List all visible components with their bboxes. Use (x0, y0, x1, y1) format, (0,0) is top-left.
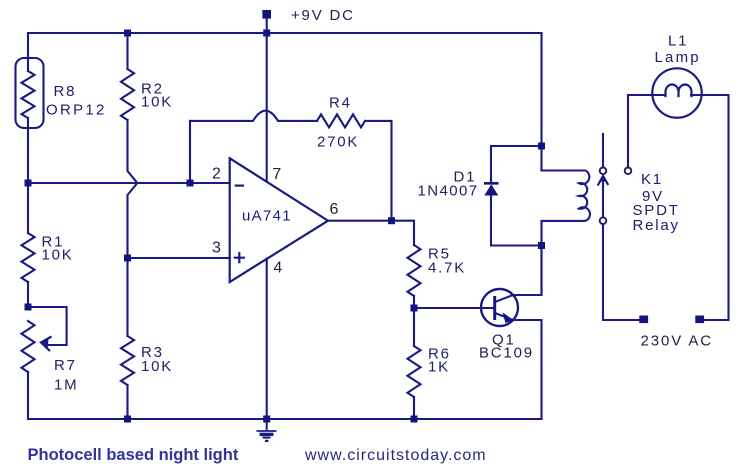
wire R8 bottom to node (27, 118, 29, 183)
wire pin3 net (128, 257, 230, 259)
junction pin3 net (124, 255, 131, 262)
transistor Q1 emitter diagonal (495, 313, 512, 320)
wire diode top branch (491, 146, 542, 182)
wire node A horizontal (pin2 net) (28, 182, 230, 184)
wire collector horizontal (512, 246, 542, 296)
wire R3 bottom (126, 385, 128, 419)
wire emitter horizontal (513, 320, 542, 419)
resistor R2 zigzag (121, 69, 134, 120)
svg-text:Photocell based night light: Photocell based night light (28, 446, 239, 464)
lamp filament (666, 85, 692, 96)
wire op-amp pin7 supply (266, 33, 268, 182)
svg-text:1K: 1K (428, 359, 450, 376)
wire +9V stub (266, 18, 268, 33)
terminal square 230V right (695, 316, 704, 324)
svg-text:+9V DC: +9V DC (291, 7, 355, 24)
junction feedback tap (187, 180, 194, 187)
svg-text:1N4007: 1N4007 (418, 183, 479, 200)
wire feedback horizontal with hop (190, 111, 317, 121)
svg-text:10K: 10K (42, 247, 74, 264)
svg-text:R4: R4 (329, 95, 352, 112)
svg-text:Relay: Relay (633, 217, 680, 234)
terminal square +9V (262, 10, 271, 19)
wire R1 bottom to node (27, 282, 29, 307)
junction node A left (25, 180, 32, 187)
wire R4 right (365, 121, 392, 221)
resistor R8 zigzag (22, 71, 35, 118)
lamp L1 circle (652, 68, 701, 117)
junction R2 top (124, 30, 131, 37)
resistor R3 zigzag (121, 336, 134, 385)
wire bottom rail (28, 418, 542, 420)
potentiometer R7 arrow tip fill (41, 338, 49, 348)
junction output-R4 (388, 217, 395, 224)
junction ground tap (263, 416, 270, 423)
svg-text:10K: 10K (141, 358, 173, 375)
transistor Q1 emitter arrow (503, 312, 515, 323)
svg-text:L1: L1 (668, 33, 688, 50)
junction +9V tap (263, 30, 270, 37)
wire R7 wiper loop (28, 307, 67, 345)
junction base node (411, 305, 418, 312)
resistor R5 zigzag (408, 245, 421, 296)
wire +9V down right side (540, 33, 542, 171)
svg-text:K1: K1 (641, 171, 663, 188)
svg-text:4.7K: 4.7K (428, 260, 466, 277)
svg-text:270K: 270K (317, 134, 359, 151)
svg-text:230V AC: 230V AC (641, 333, 714, 350)
photocell body R8 (16, 58, 44, 128)
wire switch armature (602, 178, 604, 218)
relay contact circle NO (625, 168, 632, 175)
relay armature arrow barbs (598, 176, 609, 186)
potentiometer R7 arrowhead (41, 337, 52, 352)
diode D1 triangle (484, 184, 498, 195)
transistor Q1 circle (481, 289, 518, 326)
wire R5 bottom to base node (413, 296, 415, 308)
svg-text:BC109: BC109 (479, 345, 534, 362)
svg-text:6: 6 (330, 201, 341, 218)
wire output to R5 column (392, 221, 415, 245)
resistor R4 zigzag (317, 114, 365, 127)
junction R3 bottom rail (124, 416, 131, 423)
wire top rail +9V (28, 32, 542, 34)
wire R1 top (27, 183, 29, 233)
junction diode top (538, 143, 545, 150)
op-amp plus sign (235, 253, 244, 262)
resistor R7 zigzag (22, 321, 35, 372)
svg-text:ORP12: ORP12 (46, 102, 107, 119)
wire pole down to 230V (603, 224, 639, 320)
wire base net (414, 307, 493, 309)
resistor R1 zigzag (22, 233, 35, 282)
svg-text:www.circuitstoday.com: www.circuitstoday.com (304, 447, 487, 464)
transistor Q1 collector diagonal (496, 295, 513, 302)
ground (257, 419, 277, 441)
wire R2 bottom with hop over pin2 net (128, 120, 138, 258)
svg-text:R8: R8 (54, 83, 77, 100)
wire lamp left to NO contact (628, 95, 665, 167)
wire R6 top (413, 308, 415, 346)
terminal square 230V left (639, 316, 648, 324)
relay pole circle (600, 217, 607, 224)
wire R6 bottom (413, 397, 415, 419)
svg-text:2: 2 (212, 166, 223, 183)
diode D1 cathode bar (484, 182, 499, 185)
junction R6 bottom rail (411, 416, 418, 423)
svg-text:uA741: uA741 (242, 208, 292, 225)
resistor R6 zigzag (408, 346, 421, 397)
svg-text:7: 7 (272, 166, 283, 183)
wire 230V right to lamp (691, 95, 729, 320)
op-amp minus sign (236, 185, 243, 187)
svg-text:Lamp: Lamp (655, 49, 701, 66)
junction diode bottom (538, 242, 545, 249)
svg-text:1M: 1M (54, 377, 78, 394)
wire op-amp output pin6 (328, 220, 392, 222)
svg-text:4: 4 (273, 260, 284, 277)
wire diode bottom branch (491, 196, 542, 246)
wire R3 top (126, 258, 128, 336)
wire switch NC stub (602, 134, 604, 167)
junction R1-R7 (25, 304, 32, 311)
wire coil bottom to collector node (540, 221, 542, 295)
wire R2 top (126, 33, 128, 69)
relay armature arrowhead (600, 176, 607, 182)
svg-text:3: 3 (212, 240, 223, 257)
relay coil K1 (542, 171, 591, 221)
wire op-amp pin4 to ground rail (266, 259, 268, 420)
wire left column top (27, 33, 29, 71)
wire feedback vertical (189, 121, 191, 183)
relay contact circle NC (600, 168, 607, 175)
svg-text:R7: R7 (54, 357, 77, 374)
wire R7 bottom (27, 372, 29, 419)
transistor Q1 base bar (493, 298, 496, 319)
svg-text:10K: 10K (141, 94, 173, 111)
op-amp U1 triangle (230, 158, 328, 282)
